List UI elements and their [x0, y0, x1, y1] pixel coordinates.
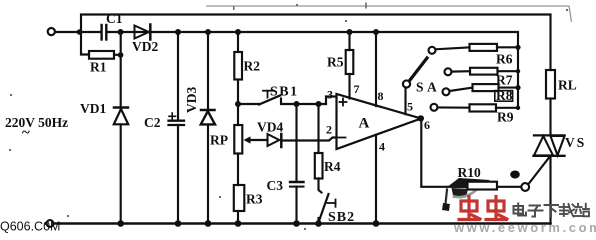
- node main-C1 junction: [77, 29, 83, 35]
- SA contact 1: [429, 47, 436, 54]
- svg-text:C2: C2: [144, 115, 161, 130]
- node VD3 bottom: [205, 220, 212, 227]
- node C2 top: [175, 29, 181, 35]
- wire R2 to RP: [237, 80, 239, 126]
- node R5 top: [347, 29, 353, 35]
- op-amp U1 A triangle: [337, 94, 422, 149]
- diode VD3: [201, 110, 215, 124]
- node R2 top: [235, 29, 241, 35]
- node R1 right junction: [118, 52, 124, 58]
- node bank R9: [516, 106, 520, 110]
- node pin4 bottom: [373, 220, 380, 227]
- svg-text:Q606.C0M: Q606.C0M: [0, 220, 60, 234]
- wire main line left segment: [54, 31, 101, 33]
- svg-text:R4: R4: [324, 159, 341, 174]
- SA contact 3: [443, 88, 450, 95]
- node after C1: [118, 29, 124, 35]
- watermark glyph zai: [560, 204, 575, 217]
- svg-text:3: 3: [327, 88, 333, 102]
- capacitor C3: [290, 182, 304, 187]
- capacitor C2: [169, 121, 185, 125]
- wire R8 to bank rail: [499, 87, 519, 89]
- resistor R2: [234, 52, 242, 80]
- svg-text:VD3: VD3: [184, 87, 199, 113]
- terminal gate: [521, 183, 529, 191]
- wire gate to triac: [528, 156, 550, 184]
- node VD3 top: [205, 29, 211, 35]
- label C2 plus: [169, 113, 176, 120]
- svg-text:5: 5: [407, 100, 413, 114]
- svg-text:www.eeworm.com: www.eeworm.com: [453, 220, 596, 234]
- capacitor C1: [102, 25, 107, 40]
- label R8 boxed: [495, 88, 513, 103]
- wire bottom rail: [46, 222, 551, 225]
- node VD1 bottom: [117, 220, 124, 227]
- node SB2 bottom: [315, 220, 322, 227]
- wire pin3 jog: [326, 97, 337, 105]
- wire C3 branch lower: [295, 187, 297, 224]
- wire R4 to SB2: [319, 179, 322, 193]
- faint page border artifact: [206, 6, 572, 22]
- node SB1-C3 junction: [294, 101, 300, 107]
- svg-text:R6: R6: [496, 52, 513, 67]
- resistor R6: [470, 44, 498, 51]
- svg-text:VD1: VD1: [80, 101, 106, 116]
- resistor RL: [546, 70, 555, 99]
- artifact tick 1: [365, 3, 367, 9]
- wire C2 branch upper: [177, 32, 179, 120]
- resistor R10: [468, 182, 498, 190]
- svg-text:A: A: [359, 116, 370, 132]
- resistor R1: [89, 51, 114, 59]
- watermark chongchong red glyph 1: [459, 197, 480, 220]
- wire output to R10: [421, 118, 467, 186]
- svg-text:7: 7: [354, 82, 360, 96]
- wire right rail mid: [549, 99, 551, 136]
- switch SB2: [319, 194, 336, 224]
- wire resistor bank rail: [517, 47, 519, 108]
- svg-text:4: 4: [379, 140, 385, 154]
- wire R9 to bank rail: [496, 107, 518, 109]
- node SB1 tap: [235, 101, 241, 107]
- wire R5 lead top: [348, 32, 350, 50]
- wire pin 5: [404, 88, 406, 115]
- svg-text:C1: C1: [106, 11, 123, 26]
- SA contact 2: [445, 68, 452, 75]
- watermark chongchong red glyph 2: [486, 197, 507, 220]
- switch SB1: [238, 91, 326, 105]
- node bank R7: [516, 69, 520, 73]
- svg-text:VD2: VD2: [132, 39, 158, 54]
- op-amp minus sign: [339, 137, 346, 139]
- svg-text:R9: R9: [497, 110, 514, 125]
- resistor R8: [473, 84, 499, 91]
- junction blob: [510, 171, 520, 179]
- node R3 bottom: [235, 220, 242, 227]
- svg-text:VS: VS: [565, 135, 586, 150]
- svg-text:2: 2: [326, 123, 332, 137]
- wire C3 branch upper: [295, 104, 297, 182]
- diode VD2: [135, 25, 151, 40]
- wire main line right segment: [108, 32, 519, 47]
- wire right rail bottom: [549, 156, 551, 224]
- node op-amp output: [418, 115, 424, 121]
- diode VD4: [268, 134, 282, 147]
- resistor R5: [346, 50, 354, 74]
- svg-text:R1: R1: [90, 60, 107, 75]
- wire contact4 to R9: [438, 106, 470, 108]
- wire VD4 to pin2 node: [281, 138, 336, 141]
- watermark glyph zi: [529, 206, 543, 217]
- watermark glyph xia: [545, 205, 559, 217]
- wire R3 lead bottom: [237, 211, 239, 224]
- diode VD1: [114, 108, 128, 125]
- svg-text:SB1: SB1: [270, 85, 299, 100]
- resistor R4: [315, 153, 323, 179]
- node C2 bottom: [175, 220, 182, 227]
- watermark cap logo: [442, 178, 490, 211]
- wire VD3 branch: [207, 32, 209, 224]
- wire contact2 to R7: [452, 70, 471, 73]
- wire contact1 to R6: [436, 47, 470, 49]
- wire R6 to bank rail: [497, 46, 518, 48]
- svg-text:R10: R10: [458, 165, 481, 180]
- switch SA pole: [403, 80, 410, 87]
- terminal input top: [48, 28, 55, 35]
- svg-text:R2: R2: [244, 59, 261, 74]
- wire RP to R3: [237, 154, 239, 186]
- wire top rail: [81, 15, 551, 71]
- wire C2 branch lower: [177, 125, 179, 224]
- svg-text:RL: RL: [558, 78, 577, 93]
- svg-text:VD4: VD4: [257, 120, 283, 135]
- wire R4 branch upper: [317, 104, 319, 153]
- potentiometer RP: [234, 125, 242, 154]
- wire pin 8: [375, 32, 377, 106]
- svg-text:R8: R8: [496, 88, 513, 103]
- watermark glyph zhan: [575, 204, 590, 217]
- resistor R9: [470, 104, 497, 111]
- wire VD1 branch: [120, 32, 122, 224]
- node bank R8: [515, 85, 520, 90]
- wire R1 branch right: [114, 54, 121, 56]
- wire contact3 to R8: [450, 88, 473, 91]
- wire pin 7: [348, 74, 350, 99]
- triac VS: [534, 135, 565, 155]
- wire R1 branch left: [81, 32, 89, 55]
- wire R10 to gate terminal: [497, 186, 521, 188]
- node C3 bottom: [293, 220, 300, 227]
- resistor R3: [234, 185, 245, 211]
- svg-text:SA: SA: [416, 80, 440, 95]
- svg-text:8: 8: [378, 89, 384, 103]
- svg-text:220V 50Hz: 220V 50Hz: [5, 115, 68, 130]
- svg-text:R5: R5: [327, 55, 344, 70]
- switch SA arm: [410, 58, 427, 80]
- svg-text:C3: C3: [267, 178, 284, 193]
- op-amp plus sign: [340, 99, 347, 106]
- wire R2 lead top: [237, 32, 239, 52]
- terminal input bottom: [47, 220, 54, 227]
- svg-text:~: ~: [22, 125, 30, 141]
- node pin8 top: [373, 29, 379, 35]
- svg-text:RP: RP: [210, 133, 228, 148]
- resistor R7: [470, 68, 498, 75]
- node bank R6: [515, 45, 520, 50]
- svg-text:R3: R3: [246, 192, 263, 207]
- node SB1-R4 junction: [316, 101, 322, 107]
- RP wiper arrow: [244, 136, 268, 143]
- watermark glyph dian: [514, 204, 527, 216]
- SA contact 4: [431, 104, 438, 111]
- wire R7 to bank rail: [498, 70, 519, 72]
- wire pin 4: [375, 135, 377, 224]
- svg-text:6: 6: [424, 118, 430, 132]
